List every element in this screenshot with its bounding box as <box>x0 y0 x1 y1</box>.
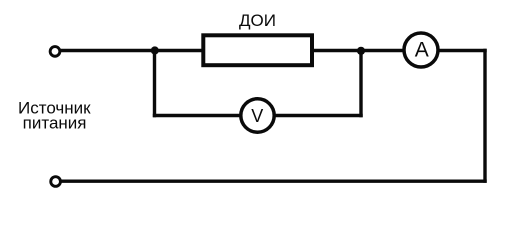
node junction dot right <box>357 47 365 55</box>
svg-text:V: V <box>251 106 263 126</box>
resistor ДОИ (box) <box>203 35 312 65</box>
svg-text:питания: питания <box>23 113 87 132</box>
ammeter A (circle) <box>404 33 438 67</box>
voltmeter V (circle) <box>241 99 274 132</box>
node junction dot left <box>151 46 159 54</box>
terminal source plus <box>50 47 60 57</box>
wire bottom horizontal return to source minus terminal <box>61 179 487 182</box>
wire vertical branch left (to voltmeter row) <box>153 51 156 118</box>
svg-text:ДОИ: ДОИ <box>239 11 276 30</box>
wire top horizontal from source plus terminal to right corner <box>60 49 487 52</box>
wire vertical branch right (to voltmeter row) <box>359 51 362 118</box>
terminal source minus <box>51 177 61 187</box>
svg-text:A: A <box>415 39 429 62</box>
wire voltmeter row horizontal <box>153 114 363 117</box>
wire right vertical down <box>483 49 486 183</box>
